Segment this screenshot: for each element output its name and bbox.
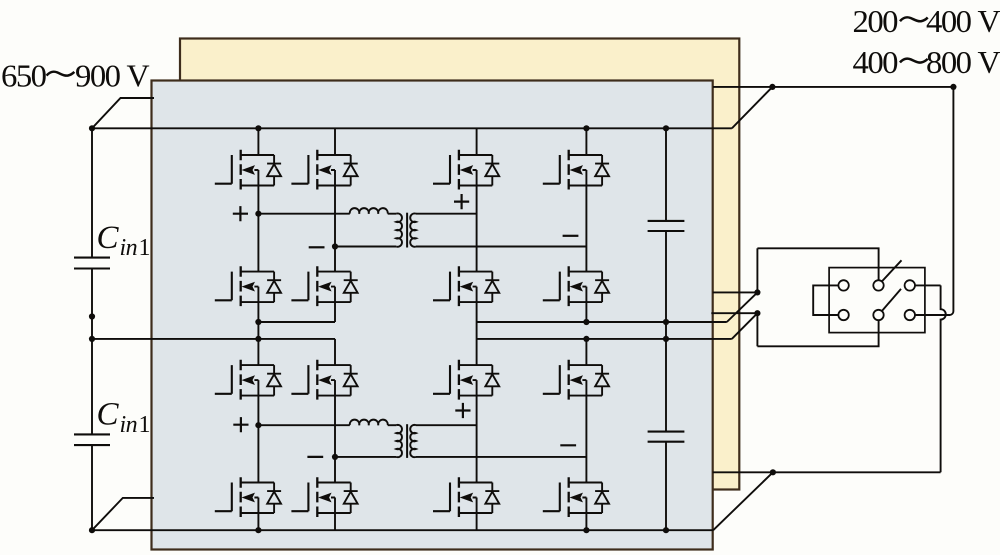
wire: jumper joining left terminals	[813, 285, 838, 315]
wire: stub from input node to rear module (top left)	[92, 98, 154, 128]
transistor Q11 (conv-2 high side, leg 3)	[433, 360, 499, 400]
svg-text:in: in	[120, 412, 138, 438]
wire: input bus middle segment	[91, 269, 93, 435]
wire: switch loop left edge upper (node A feed)	[756, 248, 758, 292]
wire: diagonal from conv-1 bottom rail to output node A	[727, 292, 758, 322]
wire: output bus upper segment	[665, 128, 667, 221]
node: conv-2 bottom rail / output bus	[663, 527, 669, 533]
transformer T1 primary winding	[396, 213, 402, 246]
transformer T2 primary winding	[396, 425, 402, 457]
transistor Q13 (conv-2 low side, leg 1)	[215, 477, 281, 517]
front converter module board (blue)	[152, 81, 713, 550]
svg-text:400: 400	[853, 44, 898, 80]
node: conv-2 top rail / output bus	[663, 336, 669, 342]
node: input node (+)	[89, 125, 95, 131]
wire: rear-module output (top, from behind board)	[713, 86, 772, 88]
node: conv-2 top rail / leg1 link	[255, 336, 261, 342]
wire: transformer T2 primary + lead	[258, 424, 349, 426]
svg-text:V: V	[127, 58, 150, 94]
label: output voltage 200~400 V	[853, 3, 1000, 39]
wire: rear-module output (bottom, from behind board)	[713, 471, 773, 473]
wire: output bus middle segment	[665, 231, 667, 432]
wire: terminal 5 to down-wire	[915, 284, 941, 286]
node: conv-2 primary - node	[332, 454, 338, 460]
wire: vertical from bottom output up to switch (with crossover hop)	[941, 285, 946, 472]
wire: top output run to the right	[772, 86, 953, 88]
transformer T2 core	[406, 424, 408, 458]
wire: converter-1 top rail	[92, 127, 732, 129]
wire: input bus upper segment	[91, 128, 93, 257]
wire: bridge leg 2 vertical connections	[334, 128, 336, 155]
wire: bridge leg 3 vertical connections	[476, 128, 478, 155]
wire: diagonal from top rail to output node	[732, 87, 773, 128]
svg-text:900: 900	[75, 58, 120, 94]
wire: converter-2 bottom rail	[92, 529, 713, 531]
node: bottom output junction	[770, 469, 776, 475]
node: top-right corner junction	[950, 84, 956, 90]
minus sign conv-2 primary	[307, 456, 323, 458]
svg-text:400: 400	[926, 3, 971, 39]
transistor Q15 (conv-2 low side, leg 3)	[433, 477, 499, 517]
svg-text:V: V	[978, 3, 1000, 39]
node: output node A	[754, 289, 760, 295]
transistor Q6 (conv-1 low side, leg 2)	[291, 266, 357, 306]
transistor Q9 (conv-2 high side, leg 1)	[215, 360, 281, 400]
switch terminal 6 (bottom-right)	[905, 310, 915, 320]
transformer T2 secondary winding	[410, 425, 416, 457]
node: top rail / output bus	[663, 125, 669, 131]
transistor Q7 (conv-1 low side, leg 3)	[433, 266, 499, 306]
transistor Q16 (conv-2 low side, leg 4)	[543, 477, 609, 517]
wire: output bus lower segment	[665, 442, 667, 531]
node: conv-1 bottom rail / leg4	[583, 319, 589, 325]
node: input node (-)	[89, 527, 95, 533]
node: conv-1 bottom rail / output bus	[663, 319, 669, 325]
capacitor Cin1 (lower)	[74, 433, 110, 435]
label Cin1 (upper)	[97, 220, 151, 261]
switch blade (upper pole)	[882, 260, 902, 281]
inductor L2 (series leakage)	[350, 420, 388, 426]
node: conv-2 primary + node	[255, 422, 261, 428]
svg-text:C: C	[97, 220, 120, 256]
svg-text:1: 1	[139, 412, 151, 438]
minus sign conv-2 secondary	[560, 444, 576, 446]
wire: converter-1 bottom rail (primary segment)	[258, 321, 335, 323]
wire: input bus lower segment	[91, 445, 93, 530]
wire: bridge leg 1 vertical connections	[257, 128, 259, 155]
node: conv-1 bottom rail / leg1	[255, 319, 261, 325]
plus sign conv-1 secondary	[454, 194, 469, 209]
node: top rail / leg4	[583, 125, 589, 131]
switch terminal 5 (top-right)	[905, 280, 915, 290]
wire: converter-1 bottom rail (secondary segment)	[477, 321, 727, 323]
capacitor Cout1	[648, 220, 685, 222]
transistor Q12 (conv-2 high side, leg 4)	[543, 360, 609, 400]
capacitor Cin1 (upper)	[74, 257, 110, 259]
wire: transformer T2 secondary + lead	[416, 424, 477, 426]
plus sign conv-1 primary	[233, 206, 248, 221]
wire: diagonal from conv-2 bottom rail to lower output node	[713, 472, 773, 530]
transformer T1 secondary winding	[410, 213, 416, 246]
node: top output junction	[769, 84, 775, 90]
node: output node B	[754, 310, 760, 316]
wire: rear-module output B (mid, from behind board)	[711, 312, 757, 314]
node: input capacitor midpoint	[89, 313, 95, 319]
svg-text:C: C	[97, 397, 120, 433]
minus sign conv-1 secondary	[563, 235, 579, 237]
wire: converter-2 top rail (right segment)	[477, 338, 732, 340]
transistor Q2 (conv-1 high side, leg 2)	[291, 150, 357, 190]
svg-text:1: 1	[139, 235, 151, 261]
svg-text:V: V	[978, 44, 1000, 80]
switch terminal 1 (top-left)	[838, 280, 848, 290]
wire: bridge leg 4 vertical connections	[585, 128, 587, 155]
minus sign conv-1 primary	[309, 246, 325, 248]
wire: inductor L1 to T1 primary	[388, 213, 397, 215]
transistor Q1 (conv-1 high side, leg 1)	[215, 150, 281, 190]
wire: diagonal from conv-2 top rail to output node B	[732, 313, 758, 339]
label Cin1 (lower)	[97, 397, 151, 438]
wire: right-side vertical down to changeover switch	[950, 87, 954, 315]
svg-text:650: 650	[1, 58, 46, 94]
wire: inductor L2 to T2 primary	[388, 424, 397, 426]
svg-text:800: 800	[926, 44, 971, 80]
node: conv-2 bottom rail / leg4	[583, 527, 589, 533]
node: conv-1 primary - node	[332, 243, 338, 249]
node: conv-2 bottom rail / leg1	[255, 527, 261, 533]
node: conv-2 top rail / leg4	[583, 336, 589, 342]
capacitor Cout2	[648, 431, 685, 433]
transistor Q3 (conv-1 high side, leg 3)	[433, 150, 499, 190]
svg-text:in: in	[120, 235, 138, 261]
node: conv-1 primary + node	[255, 211, 261, 217]
rear converter module board (yellow)	[180, 39, 739, 490]
plus sign conv-2 secondary	[455, 403, 470, 418]
wire: switch loop top edge	[757, 248, 878, 280]
wire: switch loop bottom edge	[757, 320, 878, 346]
switch terminal 4 (bottom-middle)	[873, 310, 883, 320]
wire: transformer T1 primary - lead	[335, 246, 396, 248]
transformer T1 core	[406, 213, 408, 248]
transistor Q4 (conv-1 high side, leg 4)	[543, 150, 609, 190]
wire: transformer T1 primary + lead	[258, 213, 349, 215]
switch S1 enclosure (inner box)	[829, 268, 925, 333]
wire: terminal 6 to up-wire	[915, 314, 950, 316]
node: top rail / leg1	[255, 125, 261, 131]
label: input voltage 650~900 V	[1, 58, 150, 94]
wire: converter-2 top rail (left segment)	[92, 338, 335, 340]
transistor Q5 (conv-1 low side, leg 1)	[215, 266, 281, 306]
inductor L1 (series leakage)	[350, 208, 388, 214]
switch blade (lower pole)	[882, 289, 901, 311]
wire: transformer T1 secondary - lead	[416, 246, 586, 248]
transistor Q8 (conv-1 low side, leg 4)	[543, 266, 609, 306]
node: bus / conv-2 top rail junction	[89, 336, 95, 342]
wire: transformer T1 secondary + lead	[416, 213, 477, 215]
transistor Q14 (conv-2 low side, leg 2)	[291, 477, 357, 517]
switch terminal 2 (bottom-left)	[838, 310, 848, 320]
svg-text:200: 200	[853, 3, 898, 39]
wire: transformer T2 primary - lead	[335, 456, 396, 458]
label: output voltage 400~800 V	[853, 44, 1000, 80]
wire: stub from input node to rear module (bottom left)	[92, 498, 154, 530]
wire: bottom output run to the right	[773, 471, 941, 473]
plus sign conv-2 primary	[233, 417, 248, 432]
wire: switch loop left edge lower (node B feed)	[756, 313, 758, 346]
transistor Q10 (conv-2 high side, leg 2)	[291, 360, 357, 400]
wire: transformer T2 secondary - lead	[416, 456, 586, 458]
wire: rear-module output A (mid, from behind board)	[713, 291, 758, 293]
switch terminal 3 (top-middle)	[873, 280, 883, 290]
